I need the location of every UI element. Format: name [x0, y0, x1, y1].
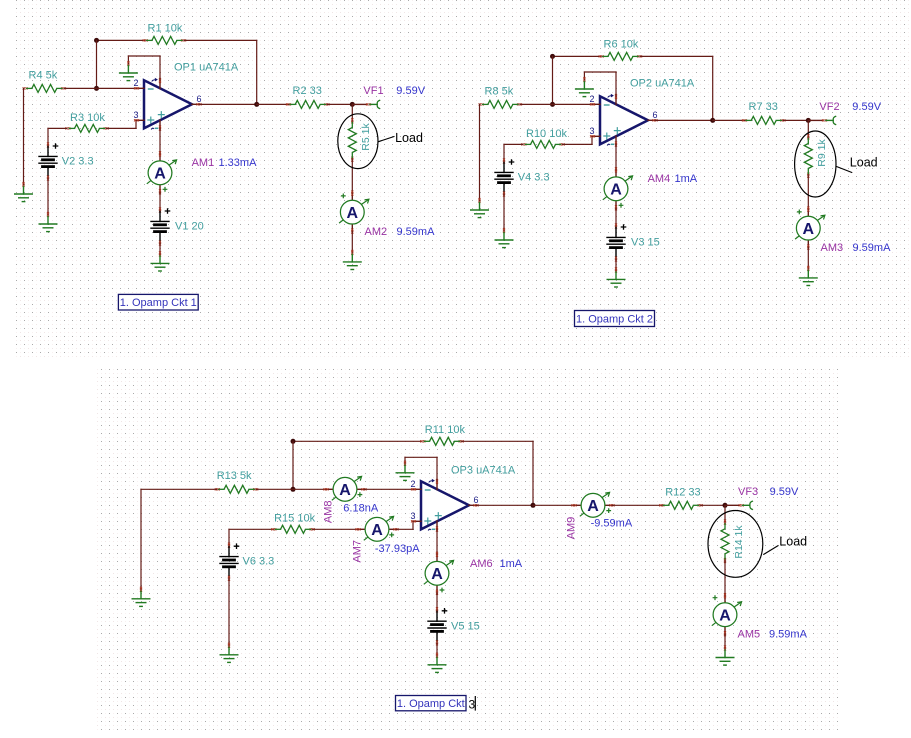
svg-text:9.59mA: 9.59mA	[397, 226, 436, 238]
svg-text:A: A	[803, 221, 815, 238]
wire AM8 to pin2	[365, 488, 414, 490]
junction inverting input node	[94, 86, 99, 91]
wire power ground drop c3	[404, 457, 406, 463]
wire junction to AM8	[293, 488, 326, 490]
wire output to node	[200, 103, 257, 105]
wire power to ground c3	[405, 456, 437, 458]
ground op-amp power	[120, 61, 138, 81]
schematic sheet bottom	[96, 368, 840, 733]
svg-text:V3 15: V3 15	[631, 237, 660, 249]
svg-text:1.33mA: 1.33mA	[219, 157, 258, 169]
resistor R3	[65, 124, 108, 132]
wire R8 5k to junction	[520, 103, 553, 105]
svg-text:R11 10k: R11 10k	[425, 424, 466, 436]
svg-text:AM4: AM4	[648, 173, 671, 185]
svg-text:6: 6	[653, 110, 658, 120]
wire power ground drop	[583, 72, 585, 80]
svg-text:2: 2	[410, 479, 415, 489]
svg-text:V4 3.3: V4 3.3	[518, 172, 550, 184]
wire V2 to ground	[47, 178, 49, 215]
load ellipse circuit2	[795, 131, 836, 197]
resistor R13	[215, 485, 258, 493]
wire feedback left down	[96, 40, 98, 88]
wire R13 right to junction	[256, 488, 293, 490]
wire feedback down to output node	[712, 56, 714, 120]
load leader circuit2	[836, 166, 852, 172]
svg-text:AM2: AM2	[365, 226, 388, 238]
svg-text:9.59V: 9.59V	[396, 85, 425, 97]
svg-text:3: 3	[469, 698, 476, 712]
wire junction to R11 left	[293, 440, 422, 442]
resistor R2	[286, 100, 329, 108]
wire V1 to ground	[159, 243, 161, 254]
resistor R4	[23, 84, 66, 92]
ammeter AM6	[424, 552, 454, 595]
wire V5 to ground	[436, 643, 438, 656]
ground under V5	[428, 653, 446, 673]
svg-text:6.18nA: 6.18nA	[343, 503, 379, 515]
battery V2	[39, 143, 58, 181]
svg-text:OP2 uA741A: OP2 uA741A	[630, 78, 695, 90]
wire AM1 to V1	[159, 193, 161, 210]
wire load to meter	[351, 159, 353, 192]
schematic sheet top	[14, 0, 911, 357]
svg-text:A: A	[347, 205, 359, 222]
junction load node c3	[723, 503, 728, 508]
svg-text:VF1: VF1	[363, 85, 383, 97]
wire junction to pin2	[553, 103, 593, 105]
wire power pin top	[615, 72, 617, 95]
svg-text:3: 3	[133, 110, 138, 120]
wire V6 corner to R15	[229, 528, 274, 530]
svg-text:R3 10k: R3 10k	[70, 112, 105, 124]
svg-text:-37.93pA: -37.93pA	[375, 543, 420, 555]
op-amp OP1	[134, 78, 202, 131]
svg-text:R12 33: R12 33	[665, 487, 700, 499]
title box circuit1	[118, 294, 198, 310]
ground left rail c3	[132, 587, 150, 607]
wire pin4 to AM1	[159, 128, 161, 152]
junction feedback top	[94, 38, 99, 43]
ammeter AM4	[603, 167, 633, 210]
wire AM4 to V3	[615, 209, 617, 226]
svg-text:V1 20: V1 20	[175, 221, 204, 233]
ammeter AM3	[795, 207, 825, 250]
svg-text:AM3: AM3	[821, 242, 844, 254]
ground op-amp power c3	[396, 461, 414, 481]
wire R13 left corner	[141, 488, 217, 490]
battery V6	[220, 543, 239, 581]
wire R2 33 to load node	[327, 103, 352, 105]
svg-text:R15 10k: R15 10k	[274, 512, 315, 524]
svg-text:1. Opamp Ckt 2: 1. Opamp Ckt 2	[576, 314, 653, 326]
svg-text:R9 1k: R9 1k	[816, 139, 828, 167]
svg-text:-9.59mA: -9.59mA	[591, 518, 633, 530]
resistor R6	[599, 52, 642, 60]
svg-text:9.59V: 9.59V	[770, 486, 799, 498]
svg-text:3: 3	[410, 511, 415, 521]
svg-text:R1 10k: R1 10k	[148, 23, 183, 35]
ground left rail	[15, 182, 33, 202]
svg-text:AM1: AM1	[192, 157, 215, 169]
svg-text:A: A	[587, 498, 599, 515]
wire pin4 to AM6	[436, 529, 438, 553]
wire R11 right to corner	[462, 440, 534, 442]
load resistor R9	[804, 134, 812, 177]
wire V6 to ground	[228, 578, 230, 645]
junction feedback top c3	[291, 439, 296, 444]
wire AM6 to V5	[436, 593, 438, 610]
title box circuit3	[396, 696, 476, 712]
wire power pin top c3	[436, 457, 438, 480]
svg-text:AM7: AM7	[351, 540, 363, 563]
resistor R10	[521, 140, 564, 148]
ground left rail	[471, 198, 489, 218]
wire R6 10k right to corner	[640, 55, 713, 57]
wire jog up to pin3 c3	[412, 521, 414, 529]
svg-text:R7 33: R7 33	[749, 101, 778, 113]
wire node to R7	[713, 119, 745, 121]
wire meter to ground	[351, 232, 353, 252]
junction inverting node c3	[291, 487, 296, 492]
battery V1	[151, 208, 170, 246]
svg-text:V6 3.3: V6 3.3	[243, 556, 275, 568]
junction output node	[254, 102, 259, 107]
wire feedback left down	[552, 56, 554, 104]
wire junction to pin2	[97, 87, 137, 89]
svg-text:6: 6	[197, 94, 202, 104]
svg-text:A: A	[154, 166, 166, 183]
ground under AM2	[344, 250, 362, 270]
wire down to V2	[503, 144, 505, 161]
svg-text:VF3: VF3	[738, 486, 758, 498]
wire node down to load	[807, 120, 809, 137]
junction inverting input node	[550, 102, 555, 107]
wire meter to ground	[807, 248, 809, 268]
wire jog up to pin3	[135, 120, 137, 128]
wire feedback down to output node	[256, 40, 258, 104]
wire pin4 to AM4	[615, 144, 617, 168]
svg-text:6: 6	[474, 495, 479, 505]
svg-text:9.59mA: 9.59mA	[853, 242, 892, 254]
ground under V3	[607, 267, 625, 287]
svg-text:V5 15: V5 15	[451, 620, 480, 632]
battery V5	[428, 607, 447, 645]
wire R4 5k to junction	[64, 87, 97, 89]
resistor R8	[479, 100, 522, 108]
wire power pin top	[159, 56, 161, 79]
svg-text:1. Opamp Ckt: 1. Opamp Ckt	[397, 698, 465, 710]
wire V2 top corner	[504, 143, 523, 145]
svg-text:R5 1k: R5 1k	[360, 123, 372, 151]
junction load node	[806, 118, 811, 123]
svg-text:Load: Load	[395, 131, 423, 145]
wire left rail down c3	[140, 489, 142, 589]
load leader circuit1	[378, 136, 395, 141]
svg-text:R8 5k: R8 5k	[485, 86, 514, 98]
wire junction to R1 10k left	[97, 39, 146, 41]
wire left rail down	[23, 88, 25, 184]
svg-text:A: A	[339, 482, 351, 499]
wire AM9 to R12	[613, 504, 663, 506]
wire left rail down	[479, 104, 481, 200]
svg-text:Load: Load	[850, 156, 878, 170]
ammeter AM1	[147, 151, 177, 194]
wire R12 to load node c3	[701, 504, 726, 506]
resistor R7	[742, 116, 785, 124]
svg-text:A: A	[371, 522, 383, 539]
ammeter AM9	[572, 492, 615, 517]
op-amp OP3	[411, 479, 479, 532]
svg-text:R6 10k: R6 10k	[604, 39, 639, 51]
wire V2 to ground	[503, 194, 505, 231]
wire feedback down to output node c3	[532, 441, 534, 505]
voltage probe VF2	[808, 116, 836, 125]
wire R15 to AM7	[313, 528, 358, 530]
ground under V2	[39, 212, 57, 232]
resistor R1	[143, 36, 186, 44]
wire R10 10k right	[563, 143, 593, 145]
wire V3 to ground	[615, 259, 617, 270]
svg-text:1. Opamp Ckt 1: 1. Opamp Ckt 1	[120, 297, 197, 309]
wire node down to load	[351, 104, 353, 121]
wire power to ground	[128, 55, 160, 57]
wire V2 top corner	[48, 127, 67, 129]
svg-text:A: A	[719, 608, 731, 625]
resistor R15	[271, 525, 314, 533]
svg-text:2: 2	[589, 94, 594, 104]
wire R3 10k right	[107, 127, 137, 129]
ground under V4	[495, 228, 513, 248]
svg-text:V2 3.3: V2 3.3	[62, 156, 94, 168]
svg-text:1mA: 1mA	[500, 558, 523, 570]
svg-text:3: 3	[589, 126, 594, 136]
svg-text:Load: Load	[779, 535, 807, 549]
ground under AM5	[716, 646, 734, 666]
svg-text:AM6: AM6	[470, 558, 493, 570]
svg-text:R13 5k: R13 5k	[217, 470, 252, 482]
load resistor R5	[348, 118, 356, 161]
wire R7 33 to load node	[783, 119, 808, 121]
load leader circuit3	[763, 545, 778, 554]
ammeter AM2	[339, 191, 369, 234]
ammeter AM5	[712, 593, 742, 636]
wire jog up to pin3	[591, 136, 593, 144]
resistor R12	[659, 501, 702, 509]
title box circuit2	[575, 311, 655, 327]
svg-text:9.59mA: 9.59mA	[769, 629, 808, 641]
svg-text:AM9: AM9	[565, 517, 577, 540]
ground under AM3	[800, 266, 818, 286]
battery V4	[495, 159, 514, 197]
ammeter AM8	[324, 476, 367, 501]
wire node to AM9	[533, 504, 574, 506]
load ellipse circuit3	[708, 511, 763, 578]
voltage probe VF3	[725, 501, 753, 510]
voltage probe VF1	[352, 100, 380, 109]
svg-text:R14 1k: R14 1k	[733, 525, 745, 559]
svg-text:A: A	[431, 566, 443, 583]
svg-text:A: A	[610, 182, 622, 199]
svg-text:1mA: 1mA	[675, 173, 698, 185]
junction load node	[350, 102, 355, 107]
ground under V1	[151, 251, 169, 271]
wire load to AM5	[724, 560, 726, 594]
junction output node c3	[531, 503, 536, 508]
svg-text:R2 33: R2 33	[293, 85, 322, 97]
svg-text:AM5: AM5	[738, 629, 761, 641]
wire output to node c3	[477, 504, 533, 506]
wire node to R2	[257, 103, 289, 105]
svg-text:OP1 uA741A: OP1 uA741A	[174, 62, 239, 74]
ground op-amp power	[576, 77, 594, 97]
wire load to meter	[807, 175, 809, 208]
wire junction to R6 10k left	[553, 55, 602, 57]
load ellipse circuit1	[338, 114, 378, 169]
op-amp OP2	[590, 94, 658, 147]
svg-text:AM8: AM8	[323, 500, 335, 523]
wire node down to load c3	[724, 505, 726, 522]
load resistor R14	[721, 520, 729, 563]
svg-text:R4 5k: R4 5k	[29, 70, 58, 82]
wire AM5 to ground	[724, 635, 726, 648]
svg-text:OP3 uA741A: OP3 uA741A	[451, 464, 516, 476]
wire feedback left down c3	[292, 441, 294, 489]
ammeter AM7	[356, 516, 399, 541]
wire down to V2	[47, 128, 49, 145]
wire down to V6	[228, 529, 230, 545]
junction feedback top	[550, 54, 555, 59]
svg-text:2: 2	[133, 78, 138, 88]
svg-text:R10 10k: R10 10k	[526, 128, 567, 140]
svg-text:VF2: VF2	[819, 101, 839, 113]
battery V3	[607, 224, 626, 262]
wire power to ground	[584, 71, 616, 73]
wire output to node	[656, 119, 713, 121]
resistor R11	[420, 437, 463, 445]
wire AM7 to jog	[397, 528, 414, 530]
ground under V6	[220, 643, 238, 663]
junction output node	[710, 118, 715, 123]
wire power ground drop	[127, 56, 129, 64]
wire R1 10k right to corner	[184, 39, 257, 41]
svg-text:9.59V: 9.59V	[852, 101, 881, 113]
